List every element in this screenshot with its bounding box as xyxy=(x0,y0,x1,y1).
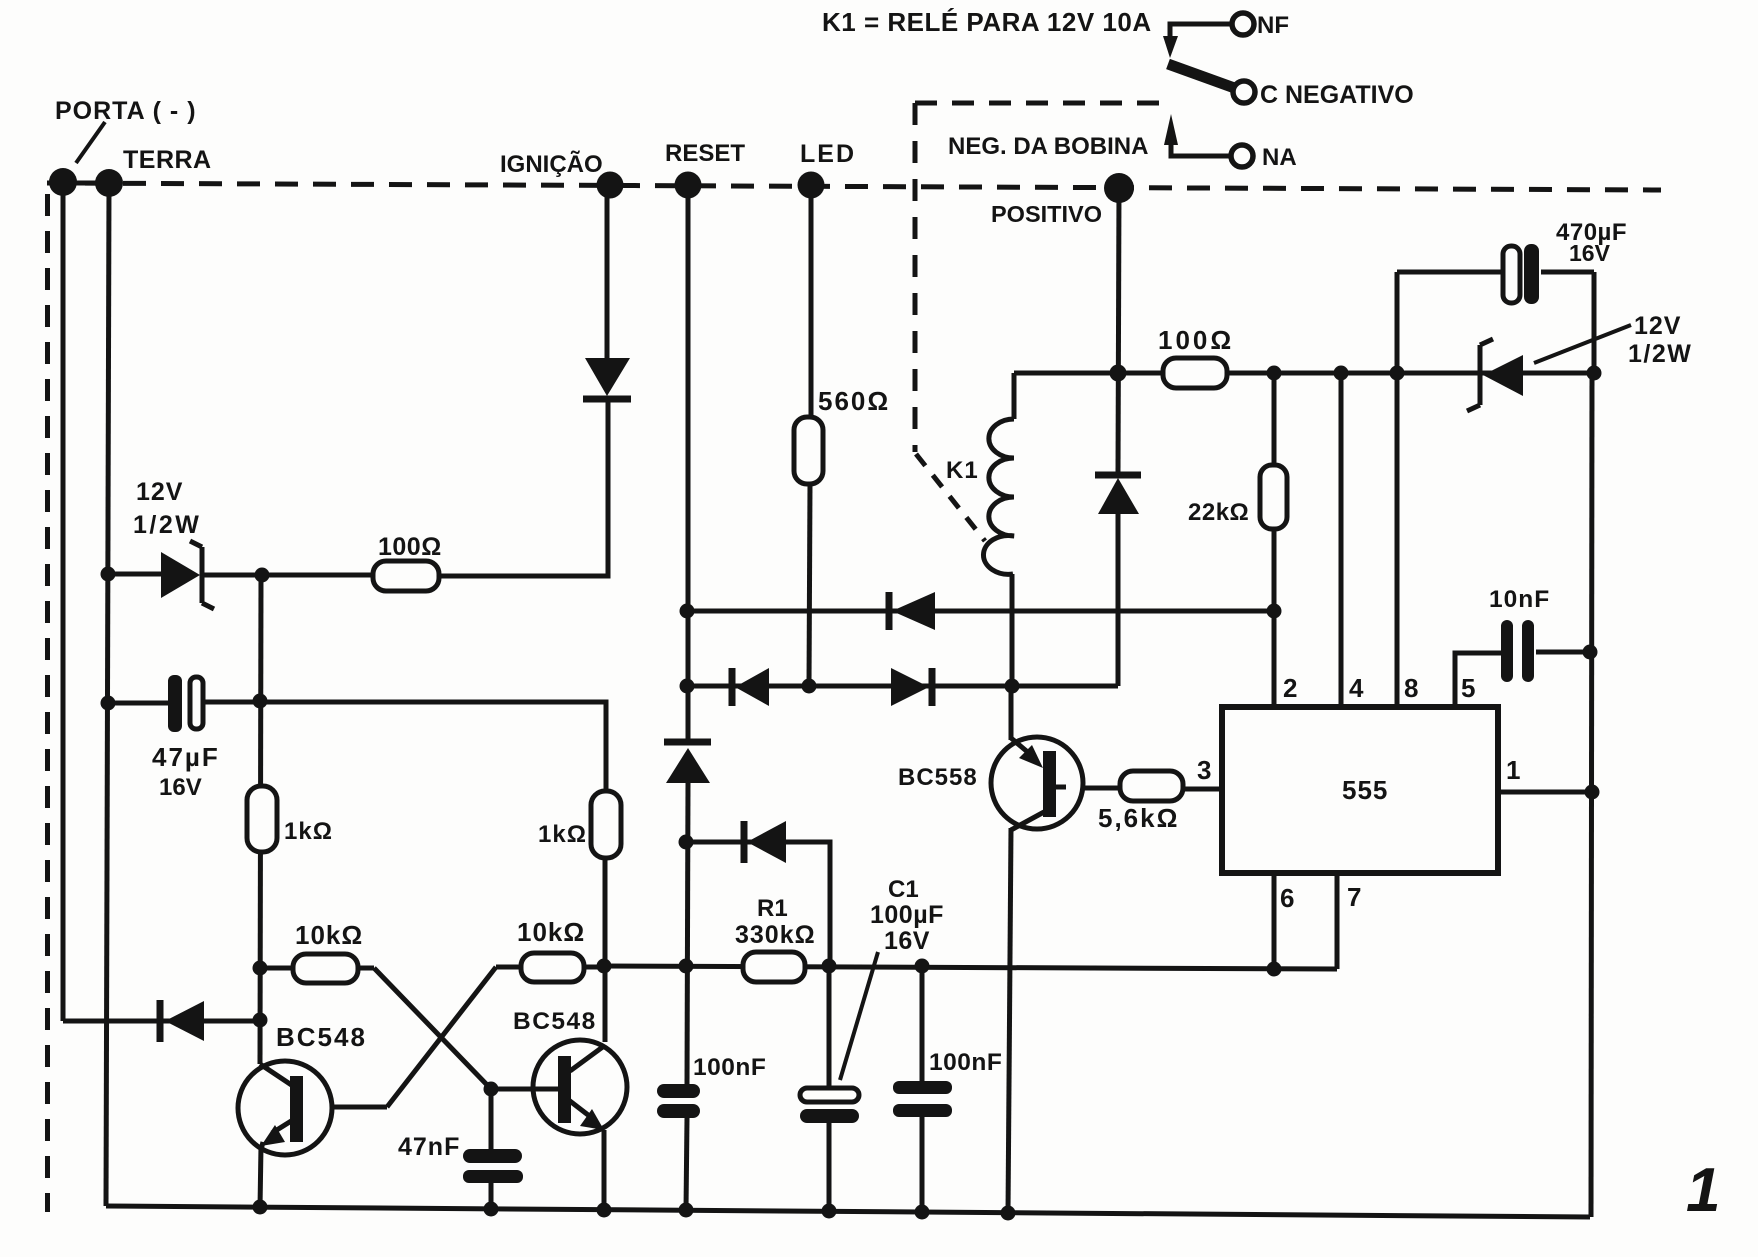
svg-text:5: 5 xyxy=(1461,673,1475,703)
relay contact NA arrow xyxy=(1164,114,1178,145)
junction R1 row/100nF2 xyxy=(915,959,930,974)
svg-text:12V: 12V xyxy=(136,478,183,506)
svg-text:22kΩ: 22kΩ xyxy=(1188,499,1249,526)
wire TERRA vertical xyxy=(106,185,109,1206)
resistor 5,6k xyxy=(1120,771,1183,801)
svg-text:C1: C1 xyxy=(888,876,919,903)
node PORTA xyxy=(49,168,77,196)
wire Q1 emitter to rail xyxy=(260,1146,261,1208)
svg-text:1/2W: 1/2W xyxy=(133,511,201,539)
junction pin8 riser/main row xyxy=(1390,366,1405,381)
wire BC558 emitter from row2 xyxy=(1009,686,1014,740)
diode row1 (cathode left) xyxy=(889,592,935,630)
svg-text:NEG. DA BOBINA: NEG. DA BOBINA xyxy=(948,133,1148,160)
junction rail/Q1 emitter xyxy=(253,1200,268,1215)
wire dashed relay box left edge xyxy=(913,103,918,452)
wire 10nF right xyxy=(1536,650,1590,655)
svg-text:1kΩ: 1kΩ xyxy=(538,821,587,848)
wire 47uF row right xyxy=(205,702,606,791)
resistor 22k xyxy=(1260,465,1287,529)
junction coil/emitter/row2 xyxy=(1005,679,1020,694)
junction rail/Q2 emitter xyxy=(597,1203,612,1218)
svg-text:8: 8 xyxy=(1404,673,1418,703)
transistor Q1 BC548 (left) xyxy=(238,1061,332,1155)
resistor 10k (right) xyxy=(521,953,584,982)
svg-text:NA: NA xyxy=(1262,144,1297,171)
wire 555 pin4 riser xyxy=(1339,373,1344,707)
svg-text:TERRA: TERRA xyxy=(123,146,212,174)
wire 100nF(2) to rail xyxy=(920,1116,925,1212)
wire 47nF to rail xyxy=(489,1182,494,1209)
wire diode row2 xyxy=(687,684,1118,689)
svg-text:47nF: 47nF xyxy=(398,1133,460,1161)
wire 555 pin6 riser xyxy=(1272,873,1277,969)
wire C1 label pointer xyxy=(840,952,878,1080)
wire relay NA contact lead xyxy=(1171,145,1231,156)
wire freewheel diode to row2 corner xyxy=(1116,514,1121,686)
svg-text:NF: NF xyxy=(1257,12,1289,39)
svg-text:47µF: 47µF xyxy=(152,742,220,772)
svg-text:BC548: BC548 xyxy=(276,1022,367,1052)
resistor 1k (right) xyxy=(591,791,621,858)
zener diode 12V 1/2W (right) xyxy=(1467,339,1523,411)
wire 470uF right corner xyxy=(1592,272,1597,373)
resistor 10k (left) xyxy=(293,954,358,983)
wire 100nF(2) riser top xyxy=(920,966,925,1083)
svg-text:100Ω: 100Ω xyxy=(378,533,442,561)
junction main row right end xyxy=(1587,366,1602,381)
transistor Q3 BC558 (PNP) xyxy=(991,737,1083,830)
svg-text:1: 1 xyxy=(1506,755,1520,785)
junction NEG line/main row xyxy=(1110,365,1127,382)
wire 22k / 555 pin2 riser xyxy=(1272,373,1277,707)
capacitor 10nF xyxy=(1501,620,1534,682)
svg-text:6: 6 xyxy=(1280,883,1294,913)
svg-text:10kΩ: 10kΩ xyxy=(295,920,363,950)
svg-text:16V: 16V xyxy=(1569,240,1611,266)
diode row2 right (cathode right) xyxy=(891,668,932,706)
wire main dashed supply line (top) xyxy=(47,183,1661,190)
relay contact NF arrow xyxy=(1163,36,1178,58)
relay armature arm to C xyxy=(1168,64,1240,90)
wire K1 coil top stub xyxy=(1012,373,1017,419)
wire NEG DA BOBINA vertical xyxy=(1118,188,1119,472)
svg-text:1/2W: 1/2W xyxy=(1628,340,1692,368)
svg-text:POSITIVO: POSITIVO xyxy=(991,201,1102,227)
wire 100ohm to ignition corner xyxy=(437,402,608,576)
wire diode row3 xyxy=(685,842,830,966)
wire 5,6k to 555 pin3 xyxy=(1181,787,1222,792)
wire 555 pin8 riser xyxy=(1395,373,1400,707)
wire 555 pin1 xyxy=(1498,790,1592,795)
svg-text:K1: K1 xyxy=(946,457,979,484)
svg-text:LED: LED xyxy=(800,140,856,168)
junction RESET/row1 xyxy=(680,604,695,619)
op-amp/IC U1 555 timer box xyxy=(1222,707,1498,873)
junction 10nF/right column xyxy=(1583,645,1598,660)
svg-text:1: 1 xyxy=(1686,1156,1720,1225)
svg-text:100µF: 100µF xyxy=(870,901,944,929)
node IGNICAO xyxy=(597,172,624,199)
wire 555 pin5 riser and 10nF left xyxy=(1455,653,1501,707)
svg-text:10nF: 10nF xyxy=(1489,586,1550,613)
wire door diode to node A xyxy=(157,1019,262,1024)
wire BC558 collector to rail xyxy=(1008,828,1011,1213)
relay contact C terminal xyxy=(1233,81,1255,103)
wire diode row1 xyxy=(687,609,1275,614)
wire main positive row y=373 xyxy=(1014,371,1594,376)
resistor 1k (left) xyxy=(247,786,277,852)
svg-text:R1: R1 xyxy=(757,895,788,922)
svg-text:PORTA ( - ): PORTA ( - ) xyxy=(55,97,197,125)
transistor Q2 BC548 (right) xyxy=(491,1040,627,1134)
wire 1k (right) to Q2 collector xyxy=(603,858,608,1042)
wire 100nF(1) to rail xyxy=(686,1118,687,1210)
wire 555 pin7 riser xyxy=(1335,873,1340,969)
svg-text:2: 2 xyxy=(1283,673,1297,703)
relay contact NF terminal xyxy=(1232,13,1254,35)
wire right column x=1592 xyxy=(1591,373,1592,1217)
svg-text:560Ω: 560Ω xyxy=(818,386,890,416)
wire ground bottom rail xyxy=(106,1206,1590,1217)
svg-text:555: 555 xyxy=(1342,775,1388,805)
diode RESET line (cathode up) xyxy=(664,742,711,783)
junction nodeA/10k row xyxy=(253,961,268,976)
junction RESET/row2 xyxy=(680,679,695,694)
wire RESET vertical upper xyxy=(686,185,691,741)
wire 470uF left corner xyxy=(1395,272,1400,373)
junction 47uF/nodeA xyxy=(253,694,268,709)
wire node A vertical x=260 xyxy=(260,575,261,1064)
zener diode ZD1 12V 1/2W (left) xyxy=(161,541,214,609)
wire 10k(2) row xyxy=(496,965,604,970)
junction rail/47nF xyxy=(484,1202,499,1217)
wire 12V zener label pointer xyxy=(1534,325,1631,363)
resistor 100 ohm (left) xyxy=(373,561,439,591)
junction nodeA/door diode xyxy=(253,1013,268,1028)
junction rail/BC558 collector xyxy=(1001,1206,1016,1221)
svg-text:BC548: BC548 xyxy=(513,1008,597,1035)
wire ignition diode top xyxy=(605,185,610,362)
wire PORTA label pointer xyxy=(76,122,105,163)
wire RESET vertical middle xyxy=(687,783,688,1084)
junction terra/47uF row xyxy=(101,696,116,711)
svg-text:IGNIÇÃO: IGNIÇÃO xyxy=(500,150,603,178)
junction pin1/right column xyxy=(1585,785,1600,800)
junction rail/C1 xyxy=(822,1204,837,1219)
junction RESET/row3 xyxy=(679,835,694,850)
svg-text:BC558: BC558 xyxy=(898,764,978,791)
wire cross-coupling diagonal A xyxy=(374,968,491,1089)
wire terra to zener ZD1 xyxy=(108,572,163,577)
wire PORTA to TERRA xyxy=(63,181,122,186)
capacitor 100nF (right) xyxy=(893,1081,952,1117)
wire 470uF row left xyxy=(1397,270,1502,275)
capacitor 470uF 16V xyxy=(1503,244,1539,304)
wire 47uF row left xyxy=(108,701,168,706)
resistor 100 ohm (right) xyxy=(1163,358,1227,388)
capacitor C1 100uF 16V xyxy=(800,1088,859,1123)
junction Q2 base / 47nF xyxy=(484,1082,499,1097)
wire Q1 base xyxy=(304,1105,387,1110)
wire 470uF row right xyxy=(1541,270,1594,275)
junction terra/zener row xyxy=(101,567,116,582)
diode row3 (cathode left) xyxy=(744,821,786,863)
relay contact NA terminal xyxy=(1231,145,1253,167)
svg-text:330kΩ: 330kΩ xyxy=(735,921,816,949)
junction rail/100nF1 xyxy=(679,1203,694,1218)
wire ZD1 to junction xyxy=(203,573,262,578)
junction 10k2/1k2 column xyxy=(597,959,612,974)
wire PORTA vertical xyxy=(61,182,66,1021)
capacitor 100nF (left) xyxy=(657,1084,700,1118)
wire relay NF contact lead xyxy=(1170,24,1232,37)
wire R1 row (pins 6-7 row) xyxy=(604,966,1337,969)
junction LED/row2 xyxy=(802,679,817,694)
svg-text:5,6kΩ: 5,6kΩ xyxy=(1098,803,1179,833)
relay K1 coil xyxy=(983,419,1014,574)
node RESET xyxy=(675,172,702,199)
junction rail/100nF2 xyxy=(915,1205,930,1220)
svg-text:RESET: RESET xyxy=(665,140,745,167)
diode freewheel across K1 (cathode up) xyxy=(1095,475,1141,514)
svg-text:K1 = RELÉ PARA 12V 10A: K1 = RELÉ PARA 12V 10A xyxy=(822,7,1152,37)
svg-text:16V: 16V xyxy=(884,927,930,955)
junction RESET/R1 row xyxy=(679,959,694,974)
svg-text:1kΩ: 1kΩ xyxy=(284,818,333,845)
diode door sensor (cathode left) xyxy=(160,1000,204,1042)
junction 22k/main row xyxy=(1267,366,1282,381)
wire 560ohm to row2 xyxy=(809,484,810,686)
junction R1/C1 xyxy=(822,959,837,974)
svg-text:C NEGATIVO: C NEGATIVO xyxy=(1260,81,1414,109)
wire C1 riser top xyxy=(827,966,832,1089)
svg-text:7: 7 xyxy=(1347,882,1361,912)
diode row2 left (cathode left) xyxy=(732,668,769,706)
wire BC558 base to 5,6k xyxy=(1056,786,1122,791)
junction pin4 riser/main row xyxy=(1334,366,1349,381)
svg-text:3: 3 xyxy=(1197,755,1211,785)
wire K1 coil bottom stub xyxy=(1010,574,1015,686)
junction zener/100ohm row xyxy=(255,568,270,583)
diode ignition (cathode down) xyxy=(583,358,631,399)
resistor 560 ohm xyxy=(794,417,823,484)
svg-text:10kΩ: 10kΩ xyxy=(517,917,585,947)
svg-text:100nF: 100nF xyxy=(693,1054,766,1081)
svg-text:16V: 16V xyxy=(159,774,202,801)
wire cross-coupling diagonal B xyxy=(387,967,496,1107)
capacitor 47nF xyxy=(463,1149,523,1183)
wire dashed relay box top edge xyxy=(915,101,1162,106)
junction pin6/R1 row xyxy=(1267,962,1282,977)
wire C1 to rail xyxy=(827,1122,832,1211)
node TERRA xyxy=(95,169,123,197)
junction row1/pin2 riser xyxy=(1267,604,1282,619)
node LED xyxy=(798,172,825,199)
wire dashed left border xyxy=(45,194,50,1212)
svg-text:100nF: 100nF xyxy=(929,1049,1002,1076)
wire LED vertical xyxy=(809,185,814,419)
svg-text:12V: 12V xyxy=(1634,312,1681,340)
wire 47nF riser top xyxy=(489,1089,494,1150)
wire 10k(1) row xyxy=(260,966,374,971)
wire dashed K1 pointer diagonal xyxy=(916,454,985,541)
node NEG DA BOBINA xyxy=(1104,173,1134,203)
capacitor 47uF 16V xyxy=(168,675,203,732)
wire PORTA to door diode xyxy=(63,1019,160,1024)
wire Q2 emitter to rail xyxy=(602,1130,607,1210)
svg-text:100Ω: 100Ω xyxy=(1158,325,1234,355)
resistor R1 330k xyxy=(743,952,805,982)
wire junction to 100ohm resistor xyxy=(262,573,375,578)
svg-text:4: 4 xyxy=(1349,673,1364,703)
